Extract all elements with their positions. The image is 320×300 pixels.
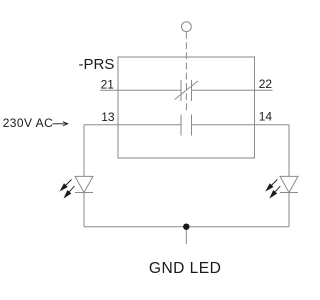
- svg-text:-PRS: -PRS: [79, 56, 115, 73]
- svg-text:14: 14: [259, 110, 273, 124]
- svg-text:13: 13: [101, 110, 115, 124]
- svg-text:22: 22: [259, 77, 273, 91]
- svg-text:GND LED: GND LED: [149, 260, 221, 277]
- svg-text:21: 21: [101, 77, 115, 91]
- svg-text:230V AC: 230V AC: [3, 116, 54, 130]
